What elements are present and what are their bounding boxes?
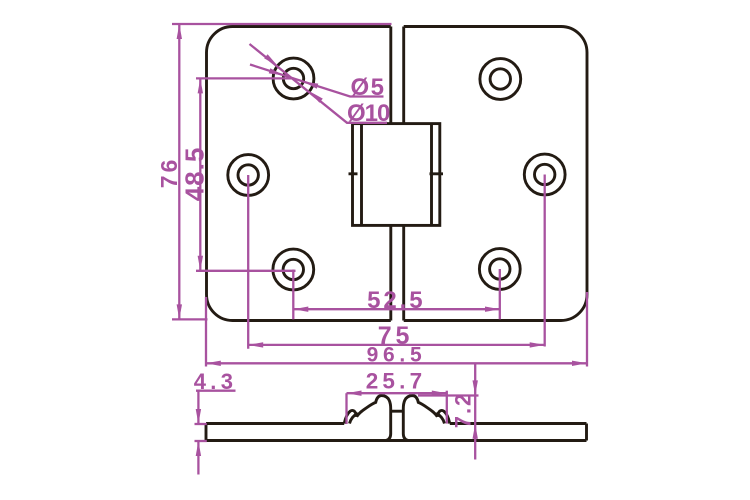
side view right curl petal xyxy=(437,410,449,423)
knuckle center ticks xyxy=(349,172,444,175)
arrow 75 right xyxy=(530,342,545,347)
arrow 48.5 up xyxy=(198,78,203,93)
side view bottom edge xyxy=(206,439,587,442)
left hinge plate xyxy=(207,27,391,321)
side view left curl petal xyxy=(344,410,356,423)
dim 4.3 upper leader xyxy=(197,391,199,424)
arrow 4.3 up xyxy=(196,441,201,456)
arrow 76 down xyxy=(177,304,182,319)
hole top-right outer xyxy=(480,59,521,100)
svg-text:48.5: 48.5 xyxy=(180,147,210,202)
hole bottom-right outer xyxy=(479,249,520,290)
dim 52.5 right extension xyxy=(499,269,501,319)
dim 75 left extension xyxy=(247,175,249,349)
arrow 7.2 down xyxy=(473,380,478,395)
dim 48.5 line xyxy=(199,78,201,270)
left plate gap edge xyxy=(389,27,392,321)
svg-text:4.3: 4.3 xyxy=(194,369,237,394)
dim 7.2 top extension tick xyxy=(418,394,479,396)
dim 96.5 line xyxy=(206,362,587,364)
dim 96.5 left extension xyxy=(205,297,207,367)
arrow 25.7 left xyxy=(347,391,362,396)
svg-text:96.5: 96.5 xyxy=(367,344,427,367)
dim 4.3 underline xyxy=(196,390,236,392)
side view top edge right xyxy=(450,422,587,425)
dim 25.7 line xyxy=(347,392,447,394)
dim 4.3 top tick xyxy=(195,423,207,425)
svg-text:76: 76 xyxy=(156,157,182,189)
side view left curl fillet xyxy=(350,413,358,423)
hole top-left outer xyxy=(273,58,314,99)
arrow 52.5 right xyxy=(485,307,500,312)
arrow 48.5 down xyxy=(198,256,203,271)
arrow phi10 upper xyxy=(264,54,277,65)
leader phi10 line xyxy=(250,44,388,123)
leader phi5 line xyxy=(250,65,384,97)
svg-text:Ø10: Ø10 xyxy=(347,100,390,127)
dim 76 bottom extension line xyxy=(172,318,208,320)
dim 48.5 bottom extension line xyxy=(196,270,296,272)
arrow phi5 lower xyxy=(303,82,318,89)
side view right knuckle curl xyxy=(403,396,437,441)
knuckle outline xyxy=(353,124,440,226)
arrow 52.5 left xyxy=(293,307,308,312)
dim 96.5 right extension xyxy=(586,292,588,367)
arrow phi10 lower xyxy=(309,91,322,103)
hole bottom-left outer xyxy=(273,249,314,290)
svg-text:25.7: 25.7 xyxy=(366,369,427,394)
hole bottom-right inner xyxy=(490,259,510,279)
side view left knuckle curl xyxy=(357,396,391,441)
arrow 25.7 right xyxy=(432,391,447,396)
dim 25.7 left extension xyxy=(345,393,347,424)
svg-text:Ø5: Ø5 xyxy=(351,74,386,101)
hole mid-right inner xyxy=(535,164,555,184)
dim 76 line xyxy=(178,24,180,319)
hole top-left inner xyxy=(283,68,303,88)
arrow 96.5 right xyxy=(572,361,587,366)
side view right end cap xyxy=(585,424,588,441)
dim 75 right extension xyxy=(544,175,546,347)
arrow phi5 upper xyxy=(269,68,284,75)
dim 52.5 left extension xyxy=(292,270,294,320)
side view pin bridge xyxy=(391,410,404,413)
dim 48.5 top extension line xyxy=(196,77,294,79)
arrow 75 left xyxy=(248,342,263,347)
arrow 96.5 left xyxy=(206,361,221,366)
side view top edge left xyxy=(206,422,344,425)
dim 4.3 lower leader xyxy=(197,441,199,475)
arrow 76 up xyxy=(177,24,182,39)
dim 25.7 right extension xyxy=(446,391,448,424)
hole mid-right outer xyxy=(524,154,565,195)
hole bottom-left inner xyxy=(283,259,303,279)
knuckle inner edges xyxy=(362,124,432,225)
right hinge plate xyxy=(404,27,587,321)
dim 76 top extension line xyxy=(172,23,392,25)
svg-text:52.5: 52.5 xyxy=(367,287,425,314)
svg-text:7.2: 7.2 xyxy=(451,392,476,429)
right plate gap edge xyxy=(402,27,405,321)
dim 4.3 bottom tick xyxy=(195,440,207,442)
side view right curl fillet xyxy=(436,413,444,423)
arrow 7.2 up xyxy=(473,424,478,439)
hole mid-left outer xyxy=(228,155,269,196)
side view left end cap xyxy=(205,424,208,441)
arrow 4.3 down xyxy=(196,409,201,424)
hole top-right inner xyxy=(490,69,510,89)
dim 7.2 line xyxy=(474,363,476,459)
dim 75 line xyxy=(248,344,545,346)
dim 52.5 line xyxy=(293,308,500,310)
hole mid-left inner xyxy=(238,165,258,185)
